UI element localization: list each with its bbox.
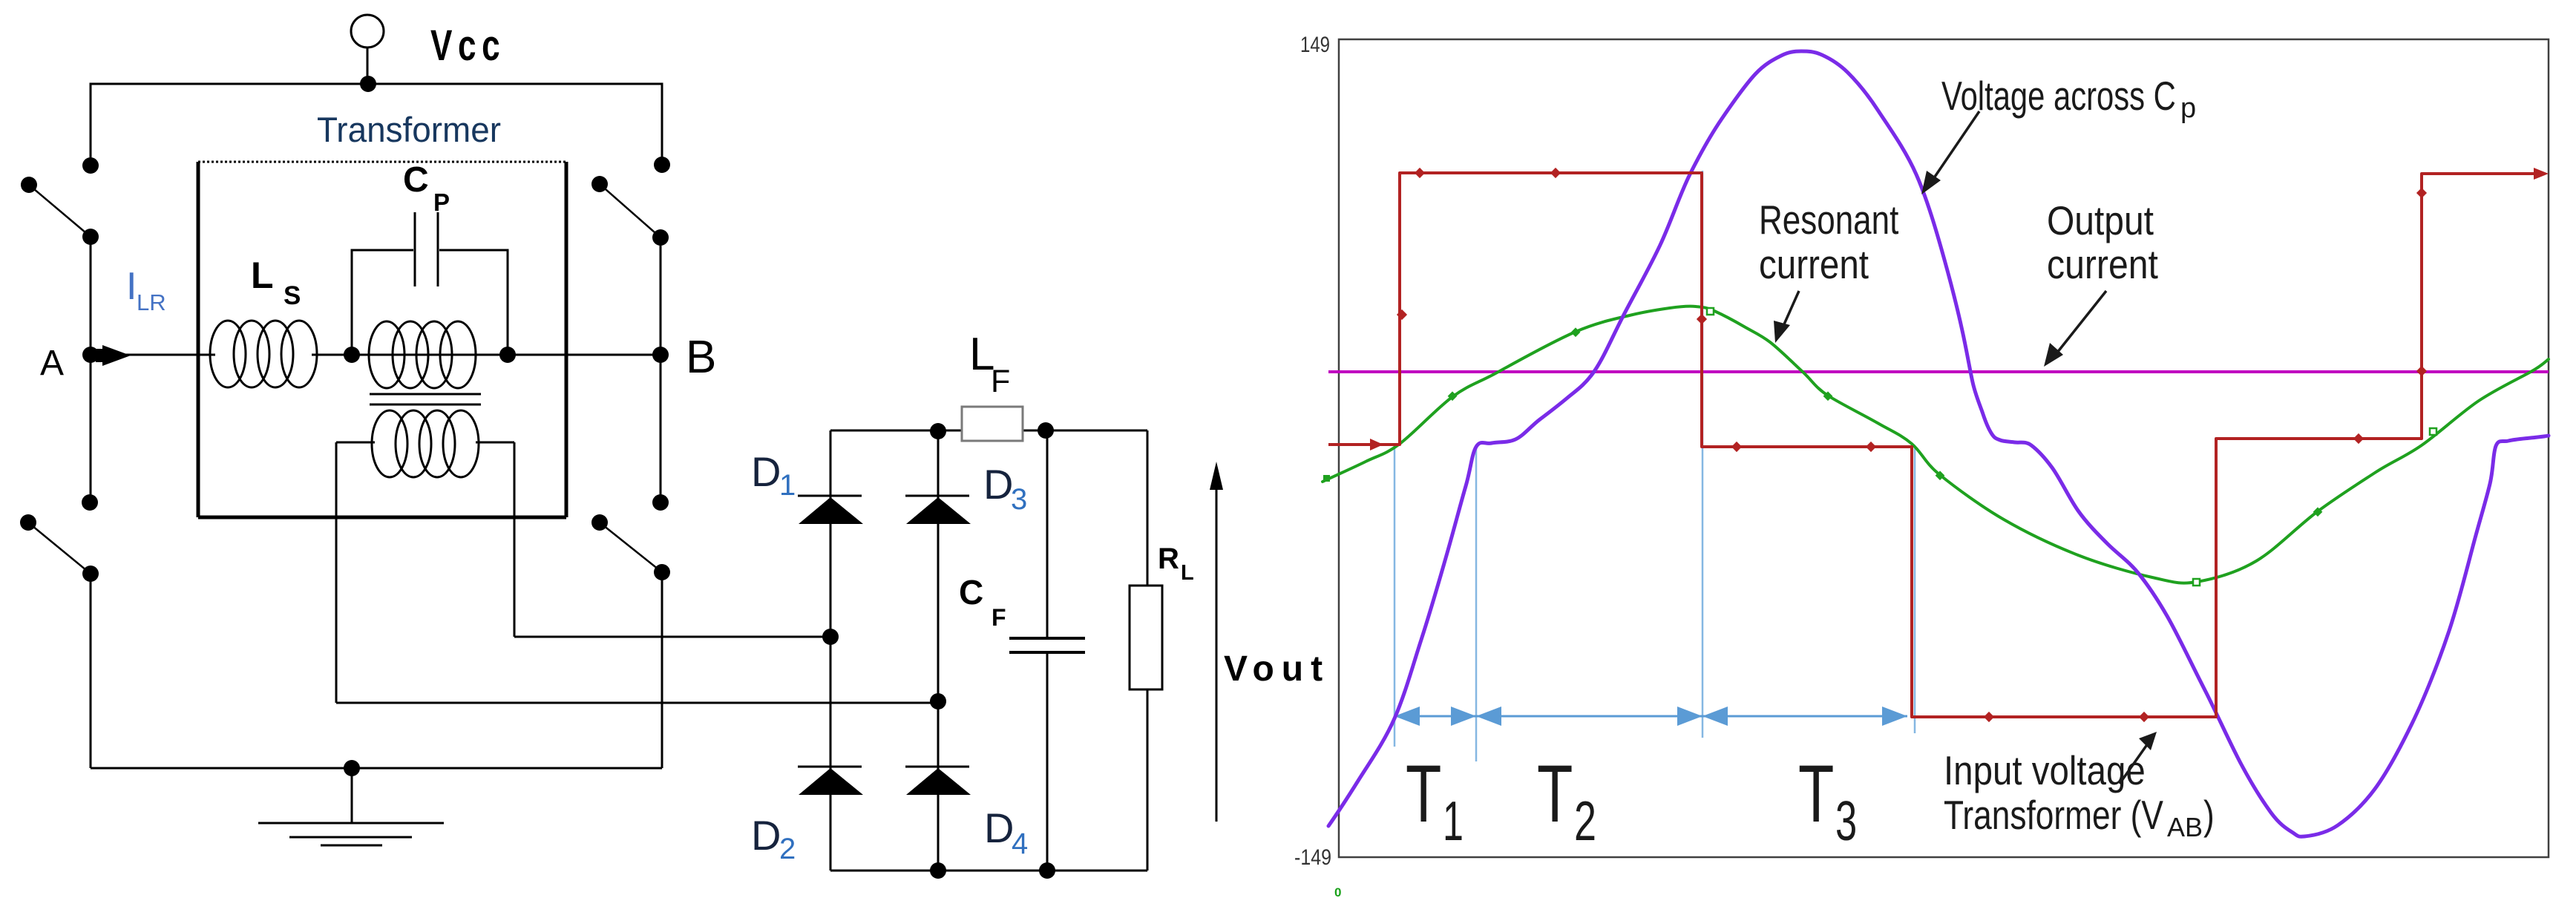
svg-text:F: F xyxy=(991,364,1010,399)
svg-text:L: L xyxy=(1181,561,1194,585)
svg-text:1: 1 xyxy=(1443,790,1464,853)
svg-text:T: T xyxy=(1537,748,1573,839)
svg-text:p: p xyxy=(2180,93,2196,124)
svg-text:Resonant: Resonant xyxy=(1759,197,1898,243)
svg-text:LR: LR xyxy=(137,289,166,315)
svg-text:S: S xyxy=(284,281,301,310)
svg-text:-149: -149 xyxy=(1294,845,1331,870)
svg-text:Input voltage: Input voltage xyxy=(1944,747,2146,793)
svg-text:D: D xyxy=(983,461,1013,508)
svg-text:D: D xyxy=(984,804,1014,851)
svg-text:Vout: Vout xyxy=(1224,649,1330,689)
svg-text:current: current xyxy=(2047,241,2158,287)
svg-text:3: 3 xyxy=(1835,790,1857,853)
svg-text:A: A xyxy=(40,344,64,383)
svg-text:L: L xyxy=(251,255,274,296)
svg-text:Voltage across C: Voltage across C xyxy=(1941,74,2176,119)
svg-text:2: 2 xyxy=(1574,790,1596,852)
svg-text:3: 3 xyxy=(1011,483,1027,516)
svg-text:): ) xyxy=(2203,792,2215,838)
svg-text:2: 2 xyxy=(779,833,796,865)
svg-text:P: P xyxy=(433,189,450,216)
svg-text:D: D xyxy=(751,812,781,859)
svg-text:149: 149 xyxy=(1300,31,1330,56)
svg-text:C: C xyxy=(403,160,429,200)
svg-text:D: D xyxy=(751,448,781,495)
svg-text:I: I xyxy=(126,265,137,308)
svg-text:T: T xyxy=(1798,748,1834,839)
svg-text:C: C xyxy=(959,573,983,612)
svg-text:T: T xyxy=(1406,748,1441,839)
svg-text:B: B xyxy=(686,332,716,383)
svg-text:AB: AB xyxy=(2167,812,2203,842)
svg-text:Transformer (V: Transformer (V xyxy=(1944,792,2164,838)
svg-text:0: 0 xyxy=(1334,885,1341,898)
svg-text:Transformer: Transformer xyxy=(317,110,501,149)
svg-text:F: F xyxy=(992,604,1006,631)
svg-text:Output: Output xyxy=(2047,197,2154,243)
svg-text:current: current xyxy=(1759,241,1869,287)
svg-text:Vcc: Vcc xyxy=(430,21,505,69)
svg-text:4: 4 xyxy=(1012,827,1028,860)
svg-text:R: R xyxy=(1158,543,1179,575)
svg-text:1: 1 xyxy=(779,469,796,502)
